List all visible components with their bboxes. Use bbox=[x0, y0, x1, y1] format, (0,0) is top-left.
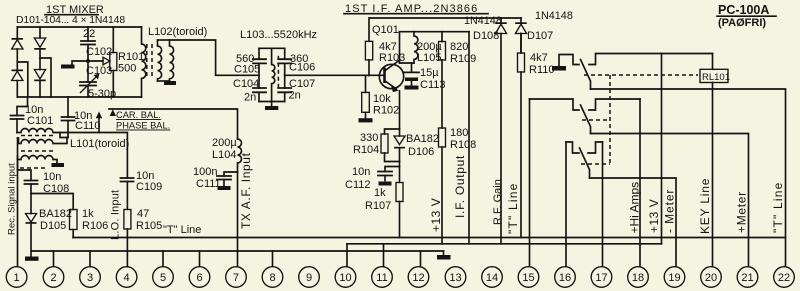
svg-text:KEY Line: KEY Line bbox=[698, 178, 712, 234]
svg-text:100n: 100n bbox=[193, 166, 217, 178]
ground stub left of C102/C103 node bbox=[61, 61, 88, 69]
svg-text:C109: C109 bbox=[136, 181, 162, 193]
ground relay contact0 bbox=[552, 55, 579, 71]
wire L101 w2 bbox=[18, 138, 68, 144]
svg-text:15: 15 bbox=[522, 272, 534, 284]
dashed link contact2 bbox=[581, 163, 610, 165]
diode D104 bbox=[34, 70, 46, 82]
svg-text:R110: R110 bbox=[529, 64, 554, 76]
terminal numbers bbox=[14, 272, 791, 284]
capacitor C106 bbox=[278, 48, 291, 75]
svg-text:8: 8 bbox=[269, 272, 275, 284]
resistor R107 bbox=[365, 183, 403, 238]
svg-text:TX A.F. Input: TX A.F. Input bbox=[239, 152, 253, 229]
svg-text:820: 820 bbox=[450, 41, 468, 53]
wiper arrow to R101 bbox=[88, 57, 110, 65]
svg-text:Q101: Q101 bbox=[372, 24, 399, 36]
wire filter output to base bbox=[285, 74, 384, 76]
svg-text:1N4148: 1N4148 bbox=[464, 15, 502, 27]
svg-text:I.F. Output: I.F. Output bbox=[453, 155, 467, 218]
relay contact1 right terminal bbox=[589, 99, 640, 110]
svg-text:10n: 10n bbox=[352, 166, 370, 178]
svg-text:13: 13 bbox=[449, 272, 461, 284]
inductor L104 bbox=[238, 139, 242, 267]
svg-text:PC-100A: PC-100A bbox=[718, 3, 769, 17]
diode D105 BA182 bbox=[26, 194, 73, 257]
svg-text:+13 V: +13 V bbox=[429, 198, 443, 232]
svg-text:15µ: 15µ bbox=[420, 67, 439, 79]
capacitor C112 bbox=[345, 166, 400, 191]
transistor Q101 bbox=[379, 60, 403, 92]
svg-text:C102: C102 bbox=[86, 46, 112, 58]
wire pin17 vertical bbox=[602, 142, 604, 266]
svg-text:R106: R106 bbox=[82, 220, 108, 232]
svg-text:47: 47 bbox=[137, 208, 149, 220]
svg-text:19: 19 bbox=[668, 272, 680, 284]
wire pin6 stub bbox=[199, 251, 201, 266]
wire diode column right outer bbox=[39, 27, 41, 97]
transformer L102 core bbox=[147, 44, 152, 78]
resistor R108 bbox=[439, 127, 477, 244]
core L101 line1 bbox=[21, 135, 53, 137]
wire pin8 stub bbox=[272, 251, 274, 266]
svg-text:10: 10 bbox=[339, 272, 351, 284]
capacitor C104 bbox=[253, 75, 266, 101]
svg-text:330: 330 bbox=[360, 132, 378, 144]
wire +13V switched vertical bbox=[661, 54, 663, 244]
svg-text:5-30p: 5-30p bbox=[88, 88, 116, 100]
wire pin12 stub bbox=[420, 251, 422, 266]
svg-text:L104: L104 bbox=[212, 149, 236, 161]
svg-text:CAR. BAL.: CAR. BAL. bbox=[116, 110, 161, 120]
terminal 22 bbox=[774, 267, 795, 288]
svg-text:14: 14 bbox=[486, 272, 498, 284]
ground L101 w3 bbox=[52, 163, 65, 167]
capacitor C103 trimmer bbox=[80, 61, 99, 97]
svg-text:4: 4 bbox=[124, 272, 130, 284]
svg-text:C110: C110 bbox=[75, 120, 100, 132]
svg-text:C106: C106 bbox=[289, 62, 315, 74]
capacitor C108 bbox=[25, 171, 70, 195]
wire L102 secondary tops joined bbox=[158, 39, 170, 41]
diode D101 bbox=[12, 38, 24, 49]
transformer L102 secondary 1 bbox=[158, 40, 162, 81]
svg-text:C104: C104 bbox=[233, 78, 259, 90]
wire pin1 vertical lower bbox=[17, 156, 19, 267]
wire collector bus bbox=[400, 31, 470, 33]
svg-text:18: 18 bbox=[632, 272, 644, 284]
svg-text:- Meter: - Meter bbox=[663, 189, 677, 233]
ground bus right bbox=[437, 251, 451, 260]
svg-text:L.O. Input: L.O. Input bbox=[110, 190, 122, 240]
svg-text:C112: C112 bbox=[345, 179, 370, 191]
svg-text:"T" Line: "T" Line bbox=[506, 183, 520, 234]
wire contact0 common to pin22 bbox=[591, 89, 786, 266]
svg-text:R105: R105 bbox=[136, 220, 162, 232]
wire switched 13V rail bbox=[347, 243, 662, 245]
svg-text:2n: 2n bbox=[289, 90, 301, 102]
svg-text:6: 6 bbox=[196, 272, 202, 284]
svg-text:16: 16 bbox=[559, 272, 571, 284]
terminal 10 bbox=[335, 267, 356, 288]
wire diode column left outer bbox=[16, 27, 18, 97]
capacitor C109 bbox=[121, 170, 163, 209]
wire emitter node down bbox=[399, 162, 401, 183]
wire amp top rail bbox=[370, 17, 522, 19]
wire ground bus bbox=[32, 250, 444, 252]
core L101 line2 bbox=[21, 150, 53, 152]
wire centre tap step bbox=[60, 133, 68, 138]
terminal 5 bbox=[153, 267, 174, 288]
svg-text:1: 1 bbox=[14, 272, 20, 284]
svg-text:R107: R107 bbox=[365, 200, 391, 212]
terminal 3 bbox=[80, 267, 101, 288]
svg-text:180: 180 bbox=[450, 127, 468, 139]
terminal 18 bbox=[628, 267, 649, 288]
wire pin3 stub bbox=[89, 251, 91, 266]
svg-text:C103: C103 bbox=[86, 65, 112, 77]
node junction dot bbox=[86, 59, 90, 63]
diode D103 bbox=[34, 38, 46, 50]
dashed link vertical bbox=[609, 75, 611, 164]
wire pin16 vertical bbox=[565, 142, 567, 266]
svg-text:3: 3 bbox=[87, 272, 93, 284]
core L103 adjustable bbox=[277, 56, 279, 89]
terminal 21 bbox=[737, 267, 758, 288]
svg-text:+Hi Amps: +Hi Amps bbox=[628, 182, 642, 234]
wire L102 to filter bbox=[170, 40, 260, 75]
svg-text:1N4148: 1N4148 bbox=[535, 10, 573, 22]
relay contact2 left terminal from pin16 bbox=[566, 142, 579, 153]
terminal circles bbox=[6, 267, 794, 288]
resistor R103 bbox=[365, 18, 405, 76]
wire collector node to L105 bottom bbox=[400, 62, 415, 64]
terminal 16 bbox=[555, 267, 576, 288]
terminal 15 bbox=[518, 267, 539, 288]
wire ring link right bbox=[40, 58, 51, 97]
dashed link contact0 to RL101 bbox=[584, 74, 698, 76]
wire emitter vertical bbox=[399, 91, 401, 129]
wire contact2 common to pin19 bbox=[590, 178, 677, 266]
diode D106 BA182 bbox=[394, 129, 439, 162]
terminal 8 bbox=[262, 267, 283, 288]
svg-text:9: 9 bbox=[306, 272, 312, 284]
relay contact2 right terminal bbox=[588, 142, 603, 153]
arrow phase bal bbox=[96, 112, 102, 133]
svg-text:R102: R102 bbox=[373, 105, 399, 117]
wire C108 junction to R106 bbox=[31, 194, 73, 210]
terminal 9 bbox=[299, 267, 320, 288]
capacitor C111 bbox=[193, 166, 238, 190]
svg-text:12: 12 bbox=[412, 272, 424, 284]
wire mixer bottom rail bbox=[17, 96, 141, 98]
svg-text:D108: D108 bbox=[473, 30, 499, 42]
svg-text:D106: D106 bbox=[408, 146, 434, 158]
resistor R101 bbox=[110, 27, 144, 97]
wire pin10 vertical bbox=[346, 244, 348, 266]
svg-text:21: 21 bbox=[741, 272, 753, 284]
wire IF output vertical bbox=[468, 32, 470, 244]
ground filter bbox=[265, 102, 278, 111]
svg-text:+13 V: +13 V bbox=[647, 199, 661, 233]
wire mixer top rail bbox=[17, 26, 141, 28]
capacitor C102 bbox=[81, 27, 112, 59]
terminal 6 bbox=[189, 267, 210, 288]
svg-text:RL101: RL101 bbox=[702, 72, 730, 83]
terminal 7 bbox=[226, 267, 247, 288]
svg-text:4k7: 4k7 bbox=[530, 52, 548, 64]
terminal 1 bbox=[6, 267, 27, 288]
inductor L105 bbox=[414, 32, 418, 63]
ground L102 secondary bbox=[164, 81, 176, 85]
wire L101 w1 line with phase bal bbox=[17, 129, 127, 179]
resistor R109 bbox=[439, 32, 477, 128]
svg-text:"T" Line: "T" Line bbox=[163, 224, 201, 236]
wire pin18 vertical bbox=[639, 99, 641, 266]
resistor R104 bbox=[353, 129, 400, 162]
svg-text:1k: 1k bbox=[374, 187, 386, 199]
capacitor C107 bbox=[278, 75, 291, 101]
svg-text:R104: R104 bbox=[353, 144, 379, 156]
diode D102 bbox=[12, 70, 24, 81]
dashed link contact1 bbox=[582, 119, 610, 121]
svg-text:7: 7 bbox=[233, 272, 239, 284]
svg-text:Rec. Signal input: Rec. Signal input bbox=[7, 163, 18, 235]
terminal 20 bbox=[701, 267, 722, 288]
svg-text:D107: D107 bbox=[527, 30, 553, 42]
svg-text:L101(toroid): L101(toroid) bbox=[70, 138, 129, 150]
terminal 13 bbox=[445, 267, 466, 288]
svg-text:C111: C111 bbox=[196, 178, 221, 190]
terminal 17 bbox=[591, 267, 612, 288]
svg-text:1k: 1k bbox=[82, 208, 94, 220]
svg-text:BA182: BA182 bbox=[39, 208, 72, 220]
capacitor C113 bbox=[404, 63, 445, 91]
capacitor C105 bbox=[253, 48, 266, 75]
svg-text:D105: D105 bbox=[40, 220, 66, 232]
diode D107 bbox=[515, 18, 553, 52]
svg-text:R108: R108 bbox=[450, 139, 476, 151]
svg-text:10n: 10n bbox=[43, 171, 61, 183]
svg-text:L103...5520kHz: L103...5520kHz bbox=[240, 29, 317, 41]
resistor R110 bbox=[518, 34, 555, 238]
svg-text:PHASE BAL.: PHASE BAL. bbox=[116, 121, 170, 131]
svg-text:2: 2 bbox=[50, 272, 56, 284]
svg-text:11: 11 bbox=[376, 272, 387, 284]
wire pin11 vertical bbox=[383, 244, 385, 266]
wire pin15 vertical bbox=[529, 99, 531, 266]
resistor R105 bbox=[124, 208, 162, 267]
transformer L102 primary bbox=[142, 27, 146, 97]
wire filter top bus bbox=[259, 47, 285, 49]
resistor R102 bbox=[359, 76, 400, 123]
terminal 19 bbox=[664, 267, 685, 288]
svg-text:C107: C107 bbox=[289, 78, 315, 90]
resistor R106 bbox=[70, 208, 109, 238]
diode D108 bbox=[473, 18, 507, 244]
svg-text:22: 22 bbox=[778, 272, 790, 284]
relay coil RL101 bbox=[700, 69, 730, 83]
svg-text:2n: 2n bbox=[244, 92, 256, 104]
relay contact2 arm bbox=[580, 148, 590, 178]
relay contact0 arm bbox=[581, 60, 591, 90]
svg-text:"T" Line: "T" Line bbox=[771, 182, 785, 233]
relay contact0 right terminal bbox=[589, 54, 713, 65]
wire L102 secondary bottoms joined bbox=[158, 80, 170, 82]
arrow car bal bbox=[110, 109, 116, 116]
svg-text:500: 500 bbox=[118, 63, 136, 75]
wire T line horizontal bbox=[73, 237, 786, 239]
terminal 2 bbox=[43, 267, 64, 288]
svg-text:20: 20 bbox=[705, 272, 717, 284]
svg-text:+Meter: +Meter bbox=[735, 191, 749, 233]
terminal 12 bbox=[408, 267, 429, 288]
inductor L103 bbox=[272, 48, 275, 101]
wire pin5 stub bbox=[162, 251, 164, 266]
svg-text:D101-104... 4 × 1N4148: D101-104... 4 × 1N4148 bbox=[16, 15, 125, 26]
svg-text:R101: R101 bbox=[118, 51, 144, 63]
wire filter bottom bus bbox=[259, 101, 285, 103]
terminal 14 bbox=[482, 267, 503, 288]
svg-text:R.F. Gain: R.F. Gain bbox=[492, 179, 504, 225]
svg-text:200µ: 200µ bbox=[212, 137, 237, 149]
wire KEY line down bbox=[712, 54, 714, 267]
wire ring link left bbox=[17, 62, 28, 97]
svg-text:(PAØFRI): (PAØFRI) bbox=[718, 17, 766, 29]
relay contact1 left terminal from pin15 bbox=[530, 99, 580, 110]
svg-text:10k: 10k bbox=[373, 93, 391, 105]
wire pin2 stub bbox=[53, 251, 55, 266]
svg-text:C105: C105 bbox=[234, 64, 260, 76]
ground bus left bar bbox=[25, 257, 39, 261]
svg-text:5: 5 bbox=[160, 272, 166, 284]
wire L101 w3 bbox=[18, 156, 58, 164]
svg-text:22: 22 bbox=[83, 28, 95, 40]
svg-text:17: 17 bbox=[595, 272, 607, 284]
transformer L102 secondary 2 bbox=[170, 40, 174, 81]
wire car bal to L104 bbox=[109, 109, 238, 139]
capacitor C101 bbox=[11, 97, 54, 133]
relay contact1 arm bbox=[581, 105, 591, 134]
svg-text:R109: R109 bbox=[450, 53, 476, 65]
capacitor C110 bbox=[62, 97, 101, 138]
svg-text:L102(toroid): L102(toroid) bbox=[148, 26, 207, 38]
wire contact1 common to pin21 bbox=[591, 134, 749, 267]
svg-text:BA182: BA182 bbox=[406, 133, 439, 145]
core L101 line3 bbox=[20, 167, 48, 169]
svg-text:C101: C101 bbox=[27, 115, 53, 127]
svg-text:L105: L105 bbox=[417, 52, 441, 64]
wire collector vertical bbox=[399, 32, 401, 63]
wire pin1 vertical upper bbox=[18, 138, 32, 181]
terminal 11 bbox=[372, 267, 393, 288]
terminal 4 bbox=[116, 267, 137, 288]
